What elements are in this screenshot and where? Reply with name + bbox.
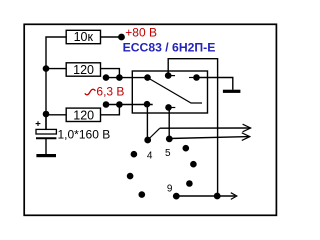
pin 9 dot <box>173 193 180 200</box>
svg-text:ECC83 / 6Н2П-Е: ECC83 / 6Н2П-Е <box>123 41 216 55</box>
pin 3 dot <box>183 145 190 152</box>
svg-text:+80 В: +80 В <box>125 25 157 39</box>
wire bus to R3 <box>46 114 66 116</box>
label 6,3 V ac symbol <box>85 89 96 95</box>
node anode B (dot B) <box>165 72 172 79</box>
node +80V <box>118 34 125 41</box>
arrowhead output 1 <box>243 124 251 132</box>
pin 8 dot <box>139 191 146 198</box>
wire R3 jog up <box>101 105 120 115</box>
svg-text:120: 120 <box>73 63 94 77</box>
ground under C1 <box>36 154 56 157</box>
svg-text:4: 4 <box>147 150 153 161</box>
wire pin9 to vertical <box>176 195 217 197</box>
pin 1 dot <box>186 180 193 187</box>
pin 4 dot <box>144 137 151 144</box>
wire output line 2 <box>169 137 250 139</box>
wire dot B stub <box>168 75 175 77</box>
node D (dot D) <box>144 101 151 108</box>
wire dot E down to pin 5 <box>168 107 170 139</box>
arrowhead small <box>231 193 237 200</box>
svg-text:10к: 10к <box>74 30 94 44</box>
node grid A (dot A) <box>144 74 151 81</box>
node bus-R2 junction <box>43 65 50 72</box>
resistor R2 120 <box>66 63 100 77</box>
wire R1 to +80V node <box>101 36 122 38</box>
capacitor C1 top plate <box>36 129 56 134</box>
node E (dot E) <box>165 104 172 111</box>
svg-text:5: 5 <box>165 148 171 159</box>
svg-text:6,3 В: 6,3 В <box>96 85 124 99</box>
wire dot E stub right <box>169 107 176 109</box>
svg-text:9: 9 <box>167 183 173 194</box>
wire dot D down to pin 4 <box>146 104 148 140</box>
wire bus to R2 <box>46 68 66 70</box>
pin 7 dot <box>127 173 134 180</box>
node heater B end <box>103 101 110 108</box>
wire C1 to ground <box>45 139 47 154</box>
border frame <box>24 24 276 215</box>
capacitor C1 plus mark <box>36 121 41 126</box>
svg-text:120: 120 <box>73 109 94 123</box>
tube box U1 <box>132 71 207 113</box>
ground right <box>223 90 241 93</box>
node heater A end <box>103 74 110 81</box>
arrowhead output 2 <box>242 133 250 141</box>
node heater B junction <box>116 101 123 108</box>
node bus-R3 junction <box>43 111 50 118</box>
pin 6 dot <box>131 151 138 158</box>
wire output line 1 <box>160 127 251 129</box>
wire R2 jog down <box>101 69 120 78</box>
wire dot C stub left <box>189 77 197 79</box>
resistor R1 10k <box>66 30 100 44</box>
pin 2 dot <box>190 161 197 168</box>
wire left bus <box>46 37 66 129</box>
node heater A junction <box>116 74 123 81</box>
wire dot B up and over <box>168 59 217 196</box>
wire diagonal contact <box>148 78 203 103</box>
pin 5 dot <box>166 136 173 143</box>
capacitor C1 wire top <box>45 114 47 129</box>
capacitor C1 bottom plate <box>36 137 56 139</box>
resistor R3 120 <box>66 108 100 123</box>
node vertical junction <box>214 193 221 200</box>
wire pin4 diagonal to output line <box>148 128 160 140</box>
svg-text:1,0*160 В: 1,0*160 В <box>58 127 111 141</box>
node C (dot C) <box>193 74 200 81</box>
wire small arrow right <box>217 195 235 197</box>
wire dot C to ground <box>197 78 233 90</box>
wire heater row B <box>103 104 153 106</box>
wire heater row A <box>103 77 148 79</box>
